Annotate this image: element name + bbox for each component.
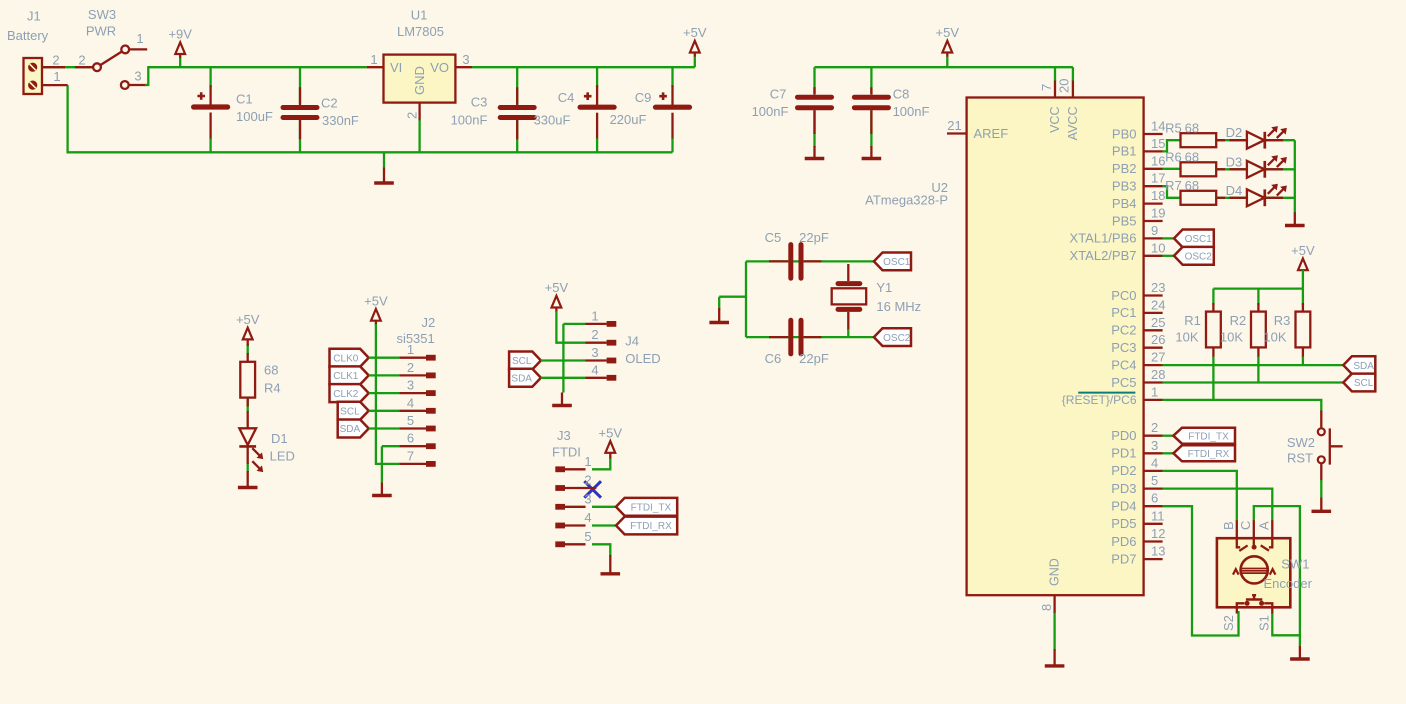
svg-text:220uF: 220uF xyxy=(610,112,647,127)
ground under U2 xyxy=(1045,649,1065,666)
net flag OSC1 at crystal xyxy=(874,253,911,271)
wire R1 to RESET net xyxy=(1212,357,1214,400)
wire PD1 to FTDI_RX flag xyxy=(1162,452,1173,454)
svg-text:2: 2 xyxy=(52,53,59,68)
svg-text:VI: VI xyxy=(390,60,402,75)
svg-text:C4: C4 xyxy=(558,90,575,105)
svg-text:PD6: PD6 xyxy=(1111,534,1136,549)
capacitor C5 22pF xyxy=(765,230,829,278)
wire R6 to D3 xyxy=(1216,168,1247,170)
svg-text:PB4: PB4 xyxy=(1112,196,1137,211)
wire to crystal ground xyxy=(719,297,746,309)
capacitor C4 330uF xyxy=(580,67,614,152)
svg-text:14: 14 xyxy=(1151,119,1165,134)
svg-text:+9V: +9V xyxy=(168,27,192,42)
svg-text:3: 3 xyxy=(591,345,598,360)
svg-text:330nF: 330nF xyxy=(322,113,359,128)
wire rail to R3 xyxy=(1302,289,1304,305)
svg-text:PD3: PD3 xyxy=(1111,481,1136,496)
svg-text:3: 3 xyxy=(134,69,141,84)
supply symbol +5V xyxy=(236,312,260,339)
net flag OSC1 at U2 xyxy=(1174,230,1214,248)
svg-text:S2: S2 xyxy=(1221,615,1236,631)
svg-text:SCL: SCL xyxy=(512,356,532,367)
wire OSC2 row xyxy=(746,336,874,338)
wire U1 GND pin to ground rail xyxy=(418,120,420,152)
svg-text:SDA: SDA xyxy=(340,424,361,435)
wire J3 pin3 to FTDI_TX xyxy=(592,506,616,508)
svg-text:1: 1 xyxy=(53,69,60,84)
svg-text:R1: R1 xyxy=(1184,313,1201,328)
svg-text:OSC1: OSC1 xyxy=(1185,234,1213,245)
svg-text:1: 1 xyxy=(136,31,143,46)
svg-text:RST: RST xyxy=(1287,451,1313,466)
svg-text:FTDI_TX: FTDI_TX xyxy=(631,503,672,514)
wire +5V to R4 xyxy=(247,344,249,355)
net flag CLK2 xyxy=(330,384,369,402)
crystal Y1 16 MHz xyxy=(832,264,921,337)
svg-text:Battery: Battery xyxy=(7,28,49,43)
wire SDA to J4 pin4 xyxy=(541,377,586,379)
wire encoder C to ground xyxy=(1254,506,1300,646)
svg-text:6: 6 xyxy=(1151,491,1158,506)
svg-text:si5351: si5351 xyxy=(396,331,434,346)
ground under J4 xyxy=(552,393,572,406)
svg-text:Encoder: Encoder xyxy=(1264,576,1313,591)
svg-text:D3: D3 xyxy=(1226,154,1243,169)
svg-text:SW3: SW3 xyxy=(88,7,116,22)
svg-text:+5V: +5V xyxy=(936,25,960,40)
wire SCL to J4 pin3 xyxy=(541,359,586,361)
svg-text:XTAL2/PB7: XTAL2/PB7 xyxy=(1070,248,1137,263)
svg-text:19: 19 xyxy=(1151,206,1165,221)
pin +5V stub at J3 xyxy=(609,452,611,459)
svg-text:100nF: 100nF xyxy=(752,104,789,119)
svg-text:R4: R4 xyxy=(264,381,281,396)
wire R7 to D4 xyxy=(1216,197,1247,199)
net flag CLK1 xyxy=(330,366,369,384)
svg-text:2: 2 xyxy=(591,327,598,342)
svg-text:11: 11 xyxy=(1151,508,1165,523)
svg-text:3: 3 xyxy=(407,378,414,393)
wire OSC1 row xyxy=(746,260,874,262)
net flag FTDI_TX at J3 xyxy=(616,498,677,516)
capacitor C6 22pF xyxy=(765,320,829,366)
svg-text:68: 68 xyxy=(1185,120,1199,135)
svg-text:FTDI: FTDI xyxy=(552,445,581,460)
wire SW3 pin3 to +9V rail xyxy=(145,67,367,85)
svg-text:SDA: SDA xyxy=(511,374,532,385)
LED D3 xyxy=(1226,154,1287,178)
svg-text:13: 13 xyxy=(1151,544,1165,559)
svg-text:6: 6 xyxy=(407,431,414,446)
svg-text:LM7805: LM7805 xyxy=(397,24,444,39)
net flag SDA at U2 xyxy=(1343,356,1375,374)
svg-text:5: 5 xyxy=(584,529,591,544)
wire J3 pin4 to FTDI_RX xyxy=(592,524,616,526)
svg-text:R7: R7 xyxy=(1165,178,1182,193)
connector J4 OLED xyxy=(586,308,661,380)
resistor R5 68 xyxy=(1181,133,1217,147)
svg-text:PB5: PB5 xyxy=(1112,213,1137,228)
svg-text:C7: C7 xyxy=(770,87,787,102)
ground under J2 xyxy=(372,483,392,496)
svg-text:1: 1 xyxy=(1151,384,1158,399)
svg-text:SW2: SW2 xyxy=(1287,435,1315,450)
wire rail to R2 xyxy=(1257,289,1259,305)
wire J2 pin6 to ground xyxy=(382,446,400,482)
wire XTAL2 to OSC2 flag xyxy=(1162,255,1174,257)
svg-text:OSC1: OSC1 xyxy=(883,257,911,268)
wire VCC rail over U2 xyxy=(815,66,1073,68)
resistor R7 68 xyxy=(1181,191,1217,205)
wire VCC pin 7 xyxy=(1054,67,1056,81)
svg-text:PD7: PD7 xyxy=(1111,551,1136,566)
svg-text:4: 4 xyxy=(584,510,591,525)
wire J3 pin5 to ground xyxy=(592,544,610,556)
svg-text:SCL: SCL xyxy=(340,407,360,418)
svg-text:1: 1 xyxy=(370,52,377,67)
svg-text:PB0: PB0 xyxy=(1112,126,1137,141)
ground at crystal xyxy=(709,308,729,323)
svg-text:PWR: PWR xyxy=(86,24,116,39)
svg-text:OLED: OLED xyxy=(625,351,660,366)
svg-text:{RESET}/PC6: {RESET}/PC6 xyxy=(1062,393,1137,407)
svg-text:PD0: PD0 xyxy=(1111,428,1136,443)
svg-text:R3: R3 xyxy=(1274,313,1291,328)
svg-text:XTAL1/PB6: XTAL1/PB6 xyxy=(1070,231,1137,246)
resistor R6 68 xyxy=(1181,162,1217,176)
capacitor C2 330nF xyxy=(283,67,317,152)
svg-text:J2: J2 xyxy=(422,315,436,330)
capacitor C7 100nF xyxy=(798,67,832,147)
switch SW3 PWR xyxy=(86,7,147,89)
svg-text:16: 16 xyxy=(1151,153,1165,168)
svg-text:2: 2 xyxy=(407,360,414,375)
LED D4 xyxy=(1226,183,1287,207)
resistor R4 68 xyxy=(240,362,255,398)
svg-text:26: 26 xyxy=(1151,332,1165,347)
svg-text:+5V: +5V xyxy=(545,280,569,295)
svg-text:CLK0: CLK0 xyxy=(333,353,358,364)
svg-text:16 MHz: 16 MHz xyxy=(876,299,921,314)
wire +5V rail from U1 VO xyxy=(472,66,695,68)
svg-text:22pF: 22pF xyxy=(799,230,829,245)
regulator U1 LM7805 xyxy=(367,8,472,122)
ground under U1 xyxy=(374,152,394,183)
connector J2 si5351 xyxy=(369,315,436,467)
wire R3 to SDA net xyxy=(1302,357,1304,366)
svg-text:PD4: PD4 xyxy=(1111,499,1136,514)
svg-text:FTDI_RX: FTDI_RX xyxy=(1188,449,1230,460)
net flag FTDI_RX at J3 xyxy=(616,517,677,535)
wire D1 cathode to ground xyxy=(247,463,249,473)
svg-text:9: 9 xyxy=(1151,223,1158,238)
svg-text:3: 3 xyxy=(462,52,469,67)
svg-text:VO: VO xyxy=(430,60,449,75)
capacitor C8 100nF xyxy=(854,67,888,147)
resistor R2 10K xyxy=(1251,312,1266,348)
ground under LEDs xyxy=(1285,212,1305,225)
ground under C8 xyxy=(862,146,882,159)
net flag OSC2 at U2 xyxy=(1174,247,1214,265)
wire battery pin 2 to SW3 xyxy=(42,66,93,68)
wire R4 to D1 xyxy=(247,398,249,412)
svg-text:20: 20 xyxy=(1057,79,1072,93)
svg-text:100uF: 100uF xyxy=(236,109,273,124)
wire encoder S1 to ground xyxy=(1272,613,1300,635)
svg-text:2: 2 xyxy=(1151,420,1158,435)
ground under J3 xyxy=(601,555,621,574)
LED D1 xyxy=(239,428,295,472)
svg-text:PC2: PC2 xyxy=(1111,323,1136,338)
wire +5V vertical to J2 pin7 xyxy=(376,324,400,464)
svg-text:27: 27 xyxy=(1151,350,1165,365)
svg-text:C8: C8 xyxy=(893,87,910,102)
svg-text:PB3: PB3 xyxy=(1112,179,1137,194)
svg-text:U1: U1 xyxy=(411,8,428,23)
svg-text:1: 1 xyxy=(591,308,598,323)
svg-text:PB1: PB1 xyxy=(1112,144,1137,159)
svg-text:AREF: AREF xyxy=(974,126,1009,141)
svg-text:Y1: Y1 xyxy=(876,280,892,295)
svg-text:10K: 10K xyxy=(1263,330,1286,345)
svg-text:18: 18 xyxy=(1151,188,1165,203)
svg-text:PD2: PD2 xyxy=(1111,463,1136,478)
svg-text:OSC2: OSC2 xyxy=(1185,252,1213,263)
wire crystal left vertical xyxy=(745,261,747,337)
svg-text:10K: 10K xyxy=(1220,330,1243,345)
ground under C7 xyxy=(805,146,825,159)
svg-text:D2: D2 xyxy=(1226,125,1243,140)
svg-text:SDA: SDA xyxy=(1353,361,1374,372)
svg-text:+5V: +5V xyxy=(236,312,260,327)
svg-text:68: 68 xyxy=(1185,150,1199,165)
wire PB pin to R5 xyxy=(1162,140,1180,151)
svg-text:PC1: PC1 xyxy=(1111,305,1136,320)
svg-text:LED: LED xyxy=(270,449,295,464)
wire PD4 to encoder S2 xyxy=(1162,506,1238,635)
wire D2 cathode to LED ground rail xyxy=(1265,139,1295,141)
svg-text:A: A xyxy=(1256,521,1271,530)
wire PD0 to FTDI_TX flag xyxy=(1162,435,1173,437)
svg-text:10K: 10K xyxy=(1175,330,1198,345)
wire PB pin to R7 xyxy=(1162,186,1180,198)
svg-text:J4: J4 xyxy=(625,334,639,349)
capacitor C1 100uF xyxy=(194,67,228,152)
svg-text:68: 68 xyxy=(264,363,278,378)
svg-text:+5V: +5V xyxy=(364,293,388,308)
svg-text:B: B xyxy=(1221,521,1236,530)
svg-text:8: 8 xyxy=(1039,604,1054,611)
svg-text:+5V: +5V xyxy=(599,426,623,441)
connector J3 FTDI xyxy=(552,428,596,547)
svg-text:100nF: 100nF xyxy=(893,104,930,119)
svg-text:PC5: PC5 xyxy=(1111,375,1136,390)
svg-text:CLK1: CLK1 xyxy=(333,371,358,382)
wire PC5 SCL net xyxy=(1162,381,1343,383)
svg-text:17: 17 xyxy=(1151,171,1165,186)
switch SW2 RST xyxy=(1287,411,1343,481)
svg-text:PC3: PC3 xyxy=(1111,340,1136,355)
svg-text:C2: C2 xyxy=(321,96,338,111)
ground under SW2 xyxy=(1312,480,1332,511)
wire +5V to J4 pin2 xyxy=(556,311,585,343)
wire J3 pin1 to +5V xyxy=(592,459,610,470)
svg-text:FTDI_TX: FTDI_TX xyxy=(1188,431,1229,442)
svg-text:2: 2 xyxy=(78,53,85,68)
svg-text:12: 12 xyxy=(1151,526,1165,541)
net flag SDA at J4 xyxy=(509,369,541,387)
svg-text:GND: GND xyxy=(1047,558,1061,586)
wire PB pin to R6 xyxy=(1162,168,1180,170)
ground under D1 xyxy=(238,475,258,488)
supply symbol +5V xyxy=(545,280,569,307)
svg-text:J1: J1 xyxy=(27,9,41,24)
svg-text:4: 4 xyxy=(591,362,598,377)
svg-text:22pF: 22pF xyxy=(799,351,829,366)
wire PD2 to encoder B xyxy=(1162,471,1236,521)
resistor R3 10K xyxy=(1296,312,1311,348)
svg-text:C6: C6 xyxy=(765,351,782,366)
wire ground rail bottom xyxy=(68,85,673,152)
svg-text:23: 23 xyxy=(1151,280,1165,295)
wire RESET net to SW2 xyxy=(1162,400,1321,412)
svg-text:2: 2 xyxy=(405,112,420,119)
supply symbol +5V xyxy=(599,426,623,453)
svg-text:C: C xyxy=(1238,521,1253,530)
svg-text:D4: D4 xyxy=(1226,183,1243,198)
wire XTAL1 to OSC1 flag xyxy=(1162,237,1174,239)
svg-text:PD5: PD5 xyxy=(1111,516,1136,531)
wire rail to R1 xyxy=(1212,289,1214,305)
LED D2 xyxy=(1226,125,1287,149)
svg-text:5: 5 xyxy=(407,413,414,428)
pin battery 1 xyxy=(42,84,68,86)
svg-text:10: 10 xyxy=(1151,240,1165,255)
wire PD3 to encoder A xyxy=(1162,489,1272,521)
svg-text:28: 28 xyxy=(1151,367,1165,382)
net flag OSC2 at crystal xyxy=(874,328,911,346)
net flag SCL at J4 xyxy=(509,352,541,370)
supply symbol +5V xyxy=(936,25,960,52)
wire U2 GND pin 8 to ground xyxy=(1053,595,1055,613)
ground under encoder xyxy=(1290,646,1310,659)
svg-text:R2: R2 xyxy=(1230,313,1247,328)
svg-text:C5: C5 xyxy=(765,230,782,245)
wire LED common vertical xyxy=(1294,140,1296,213)
svg-text:AVCC: AVCC xyxy=(1066,107,1080,141)
svg-text:PC4: PC4 xyxy=(1111,357,1136,372)
net flag SCL at J2 xyxy=(338,402,369,420)
svg-text:7: 7 xyxy=(407,448,414,463)
svg-text:S1: S1 xyxy=(1257,615,1272,631)
svg-text:21: 21 xyxy=(947,118,961,133)
svg-text:R6: R6 xyxy=(1165,150,1182,165)
svg-text:SCL: SCL xyxy=(1354,378,1374,389)
svg-text:330uF: 330uF xyxy=(534,113,571,128)
svg-text:68: 68 xyxy=(1185,178,1199,193)
wire pullup +5V rail xyxy=(1213,270,1303,289)
svg-text:+5V: +5V xyxy=(1291,243,1315,258)
supply symbol +5V xyxy=(364,293,388,320)
svg-text:3: 3 xyxy=(1151,438,1158,453)
svg-text:ATmega328-P: ATmega328-P xyxy=(865,193,948,208)
svg-text:OSC2: OSC2 xyxy=(883,333,911,344)
capacitor C9 220uF xyxy=(656,67,690,152)
net flag FTDI_RX at U2 xyxy=(1173,445,1235,461)
svg-text:+5V: +5V xyxy=(683,25,707,40)
net flag CLK0 xyxy=(330,349,369,367)
svg-text:15: 15 xyxy=(1151,136,1165,151)
svg-text:R5: R5 xyxy=(1165,120,1182,135)
net flag FTDI_TX at U2 xyxy=(1173,428,1235,444)
svg-text:VCC: VCC xyxy=(1048,107,1062,133)
resistor R1 10K xyxy=(1206,312,1221,348)
wire R2 to SCL net xyxy=(1257,357,1259,383)
wire AVCC pin 20 xyxy=(1072,67,1074,81)
net flag SDA at J2 xyxy=(338,420,369,438)
net flag SCL at U2 xyxy=(1343,374,1375,392)
supply symbol +5V xyxy=(683,25,707,52)
wire D4 cathode to LED ground rail xyxy=(1265,197,1295,199)
svg-text:GND: GND xyxy=(412,66,427,95)
svg-text:25: 25 xyxy=(1151,315,1165,330)
microcontroller U2 ATmega328-P xyxy=(865,79,1165,611)
supply +9V xyxy=(168,27,192,54)
wire R5 to D2 xyxy=(1216,139,1247,141)
no-connect cross on J3 pin2 xyxy=(584,481,601,498)
svg-text:100nF: 100nF xyxy=(451,113,488,128)
svg-text:SW1: SW1 xyxy=(1281,556,1309,571)
wire PC4 SDA net xyxy=(1162,364,1343,366)
svg-text:24: 24 xyxy=(1151,297,1165,312)
svg-text:PC0: PC0 xyxy=(1111,288,1136,303)
svg-text:4: 4 xyxy=(407,395,414,410)
svg-text:C1: C1 xyxy=(236,92,253,107)
supply symbol +5V xyxy=(1291,243,1315,270)
svg-text:PB2: PB2 xyxy=(1112,161,1137,176)
svg-text:FTDI_RX: FTDI_RX xyxy=(630,521,672,532)
svg-text:3: 3 xyxy=(584,491,591,506)
svg-text:4: 4 xyxy=(1151,455,1158,470)
svg-text:5: 5 xyxy=(1151,473,1158,488)
connector J1 battery xyxy=(7,9,49,95)
svg-text:CLK2: CLK2 xyxy=(333,389,358,400)
wire J4 pin1 to ground xyxy=(563,324,585,393)
svg-text:PD1: PD1 xyxy=(1111,446,1136,461)
wire D3 cathode to LED ground rail xyxy=(1265,168,1295,170)
svg-text:7: 7 xyxy=(1039,84,1054,91)
rotary encoder SW1 xyxy=(1217,520,1313,631)
svg-text:2: 2 xyxy=(584,473,591,488)
svg-text:C9: C9 xyxy=(635,90,652,105)
svg-text:D1: D1 xyxy=(271,431,288,446)
svg-text:J3: J3 xyxy=(557,428,571,443)
capacitor C3 100nF xyxy=(500,67,534,152)
svg-text:1: 1 xyxy=(584,454,591,469)
svg-text:C3: C3 xyxy=(471,95,488,110)
